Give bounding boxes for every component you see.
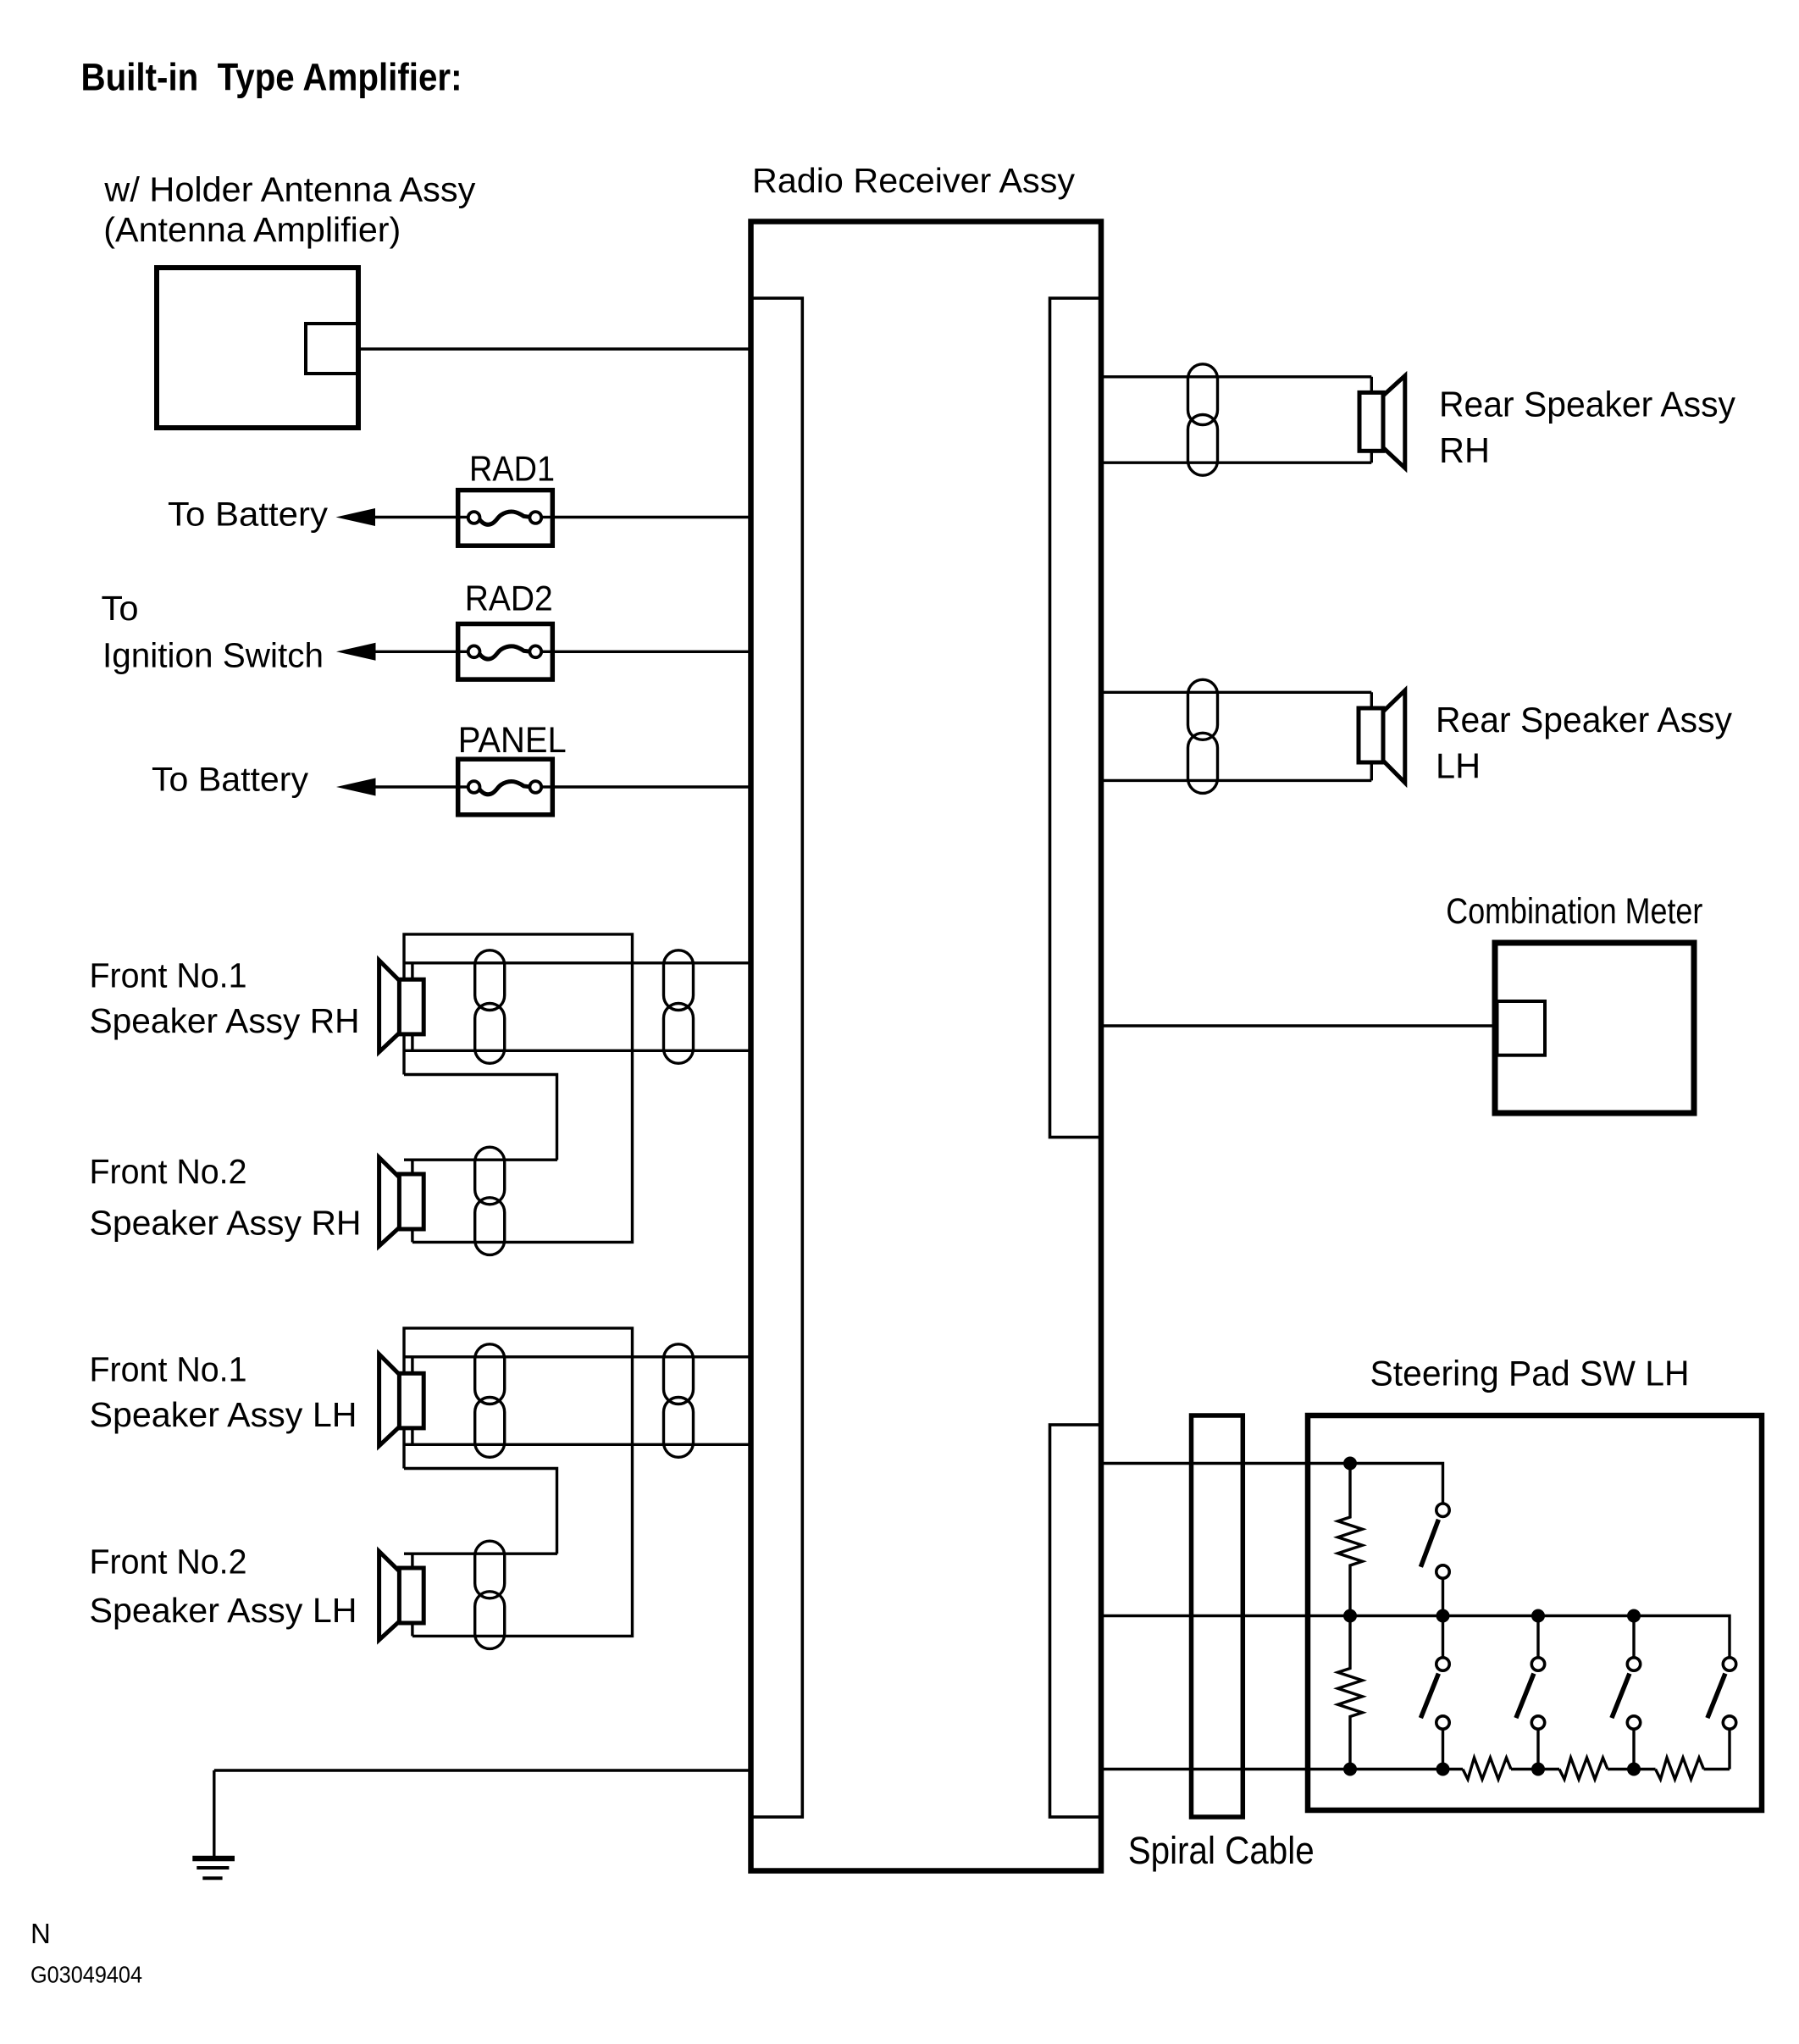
svg-text:Combination Meter: Combination Meter xyxy=(1446,891,1702,932)
svg-text:To Battery: To Battery xyxy=(152,761,308,798)
wire radio to steering 2 xyxy=(1101,1616,1730,1659)
wire jog front rh xyxy=(404,1075,557,1160)
wire rear rh top xyxy=(1101,375,1371,378)
speaker rear rh xyxy=(1370,377,1373,463)
switch SW4 xyxy=(1632,1616,1635,1659)
steering pad sw box xyxy=(1308,1415,1762,1810)
svg-text:RAD2: RAD2 xyxy=(465,579,553,618)
twisted pair front no2 rh xyxy=(475,1147,505,1205)
spiral cable box xyxy=(1192,1415,1243,1817)
twisted pair front rh col1 xyxy=(475,950,505,1011)
twisted pair front rh col2 xyxy=(664,950,694,1011)
wire battery to RAD1 xyxy=(373,516,475,518)
svg-text:To Battery: To Battery xyxy=(168,496,328,534)
wire steering bottom segments xyxy=(1511,1768,1559,1770)
arrow to ignition switch xyxy=(336,643,376,661)
fuse PANEL box xyxy=(458,759,553,815)
speaker front no2 lh xyxy=(411,1554,413,1636)
svg-text:Spiral Cable: Spiral Cable xyxy=(1128,1829,1315,1872)
wire front no2 lh top xyxy=(404,1552,557,1554)
svg-text:Front No.1: Front No.1 xyxy=(90,956,247,995)
antenna amplifier box xyxy=(157,268,358,428)
junction dots wire3 xyxy=(1343,1763,1357,1776)
resistor R4 horizontal xyxy=(1559,1758,1608,1780)
speaker rear lh xyxy=(1370,692,1373,780)
svg-text:Speaker Assy RH: Speaker Assy RH xyxy=(90,1203,362,1242)
combination meter connector square xyxy=(1497,1001,1546,1055)
wire antenna to radio xyxy=(358,347,751,350)
fuse PANEL symbol xyxy=(468,781,480,793)
svg-text:RH: RH xyxy=(1439,430,1490,470)
switch SW2 xyxy=(1442,1616,1444,1659)
resistor R2 xyxy=(1338,1616,1363,1770)
switch SW5 xyxy=(1728,1729,1730,1770)
svg-text:(Antenna Amplifier): (Antenna Amplifier) xyxy=(103,210,401,249)
svg-text:G03049404: G03049404 xyxy=(30,1962,142,1988)
svg-text:Front No.2: Front No.2 xyxy=(90,1152,247,1191)
svg-text:Front No.2: Front No.2 xyxy=(90,1542,247,1581)
speaker front no1 rh xyxy=(411,963,413,1051)
fuse RAD2 box xyxy=(458,624,553,680)
speaker front no2 rh xyxy=(411,1160,413,1242)
wire rear rh bottom xyxy=(1101,462,1371,464)
svg-text:LH: LH xyxy=(1436,746,1481,786)
twisted pair front lh col1 xyxy=(475,1344,505,1404)
wire front no2 rh top xyxy=(404,1158,557,1160)
radio receiver assy outer box xyxy=(751,222,1102,1871)
wire PANEL to radio xyxy=(535,785,751,788)
wire radio to combination meter xyxy=(1101,1024,1495,1027)
svg-text:Speaker Assy LH: Speaker Assy LH xyxy=(90,1395,357,1434)
wire front no1 rh bottom xyxy=(404,1050,751,1052)
ground symbol xyxy=(192,1856,235,1862)
fuse RAD1 box xyxy=(458,490,553,546)
radio receiver left connector bar xyxy=(751,298,803,1817)
svg-text:Rear Speaker Assy: Rear Speaker Assy xyxy=(1436,700,1732,739)
svg-text:w/ Holder Antenna Assy: w/ Holder Antenna Assy xyxy=(103,170,476,209)
svg-text:Speaker Assy LH: Speaker Assy LH xyxy=(90,1591,357,1630)
wire front no1 lh top xyxy=(404,1355,751,1358)
wire front no1 lh bottom xyxy=(404,1443,751,1446)
fuse RAD2 symbol xyxy=(468,645,480,657)
svg-text:Built-in Type Amplifier:: Built-in Type Amplifier: xyxy=(81,56,462,99)
wire ignition to RAD2 xyxy=(373,651,475,653)
resistor R1 xyxy=(1338,1464,1363,1616)
arrow to battery 2 xyxy=(336,778,376,796)
wire radio to steering 1 xyxy=(1101,1464,1443,1504)
wire RAD2 to radio xyxy=(535,651,751,653)
fuse RAD1 symbol xyxy=(468,512,480,523)
resistor R3 horizontal xyxy=(1463,1758,1511,1780)
svg-text:Ignition Switch: Ignition Switch xyxy=(102,636,324,675)
wire radio to steering 3 xyxy=(1101,1768,1463,1770)
wire loop front lh xyxy=(404,1328,633,1637)
resistor R5 horizontal xyxy=(1656,1758,1704,1780)
speaker front no1 lh xyxy=(411,1357,413,1445)
svg-text:Rear Speaker Assy: Rear Speaker Assy xyxy=(1439,385,1735,424)
wire front no1 rh top xyxy=(404,961,751,964)
switch SW3 xyxy=(1536,1616,1539,1659)
arrow to battery xyxy=(336,508,376,526)
svg-text:N: N xyxy=(30,1918,51,1949)
wire battery to PANEL xyxy=(373,785,475,788)
svg-text:To: To xyxy=(102,589,139,628)
svg-text:Speaker Assy RH: Speaker Assy RH xyxy=(90,1001,360,1040)
wire rear lh top xyxy=(1101,691,1371,694)
combination meter box xyxy=(1495,943,1694,1113)
twisted pair front lh col2 xyxy=(664,1344,694,1404)
twisted pair rear lh xyxy=(1188,679,1218,739)
twisted pair front no2 lh xyxy=(475,1541,505,1598)
svg-text:PANEL: PANEL xyxy=(458,720,567,761)
wire rear lh bottom xyxy=(1101,779,1371,782)
switch SW1 xyxy=(1442,1578,1444,1616)
wire radio to ground xyxy=(214,1769,751,1771)
wire loop front rh xyxy=(404,934,633,1243)
junction dots wire2 xyxy=(1343,1609,1357,1623)
junction dot wire1 xyxy=(1343,1457,1357,1471)
svg-text:RAD1: RAD1 xyxy=(469,449,555,489)
radio receiver right connector bar upper xyxy=(1050,298,1101,1138)
antenna connector square xyxy=(306,324,358,374)
wire jog front lh xyxy=(404,1469,557,1554)
svg-text:Radio Receiver Assy: Radio Receiver Assy xyxy=(752,161,1075,200)
svg-text:Front No.1: Front No.1 xyxy=(90,1350,247,1389)
twisted pair rear rh xyxy=(1188,364,1218,425)
svg-text:Steering Pad SW LH: Steering Pad SW LH xyxy=(1370,1354,1690,1393)
radio receiver right connector bar lower xyxy=(1050,1425,1101,1817)
wire RAD1 to radio xyxy=(535,516,751,518)
